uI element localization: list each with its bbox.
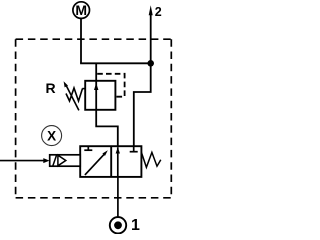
left position diagonal flow arrow — [85, 153, 106, 175]
wire horizontal manifold — [80, 62, 151, 64]
pressure valve internal flow line — [95, 81, 97, 110]
wire junction to valve right port (jog) — [134, 63, 151, 146]
svg-text:M: M — [75, 2, 87, 18]
left position blocked port T — [87, 146, 89, 150]
pilot actuator box — [50, 155, 80, 166]
right position blocked port T — [133, 146, 135, 152]
return spring of directional valve — [142, 152, 161, 167]
svg-text:R: R — [46, 80, 56, 96]
dashed enclosure box right edge — [170, 39, 172, 198]
pilot dashed line of valve R — [97, 74, 124, 97]
spring of valve R (zigzag) — [66, 88, 83, 101]
spring stub R valve — [82, 88, 85, 90]
node junction dot — [147, 60, 154, 67]
right position flow line — [117, 147, 119, 177]
pressure relief valve R body — [85, 81, 115, 110]
wire pressure valve through-line with jog to valve top port — [96, 63, 118, 146]
pressure valve internal arrowhead — [94, 83, 98, 90]
adjustability arrow across spring — [66, 85, 79, 111]
node X circle — [42, 126, 62, 146]
port 1 symbol inner dot — [114, 221, 122, 229]
right position arrowhead up — [116, 147, 120, 153]
directional valve body (2 positions) — [80, 146, 141, 177]
svg-text:2: 2 — [155, 5, 162, 19]
motor M1 circle — [73, 2, 90, 19]
svg-text:X: X — [47, 129, 56, 144]
dashed enclosure box top edge — [16, 38, 172, 40]
pilot input wire X — [0, 160, 44, 162]
pilot input arrowhead — [43, 158, 49, 163]
pilot actuator triangle — [58, 155, 66, 166]
wire valve to port 1 — [117, 177, 119, 217]
wire from motor down to manifold line — [80, 18, 82, 63]
svg-text:1: 1 — [131, 217, 140, 234]
wire port 2 riser — [150, 14, 152, 64]
dashed enclosure box bottom edge — [16, 197, 172, 199]
port 2 arrowhead — [149, 5, 153, 15]
port 1 symbol outer circle — [110, 217, 126, 233]
dashed enclosure box left edge — [15, 39, 17, 198]
directional valve divider — [110, 146, 112, 177]
pilot actuator slash — [53, 155, 57, 166]
